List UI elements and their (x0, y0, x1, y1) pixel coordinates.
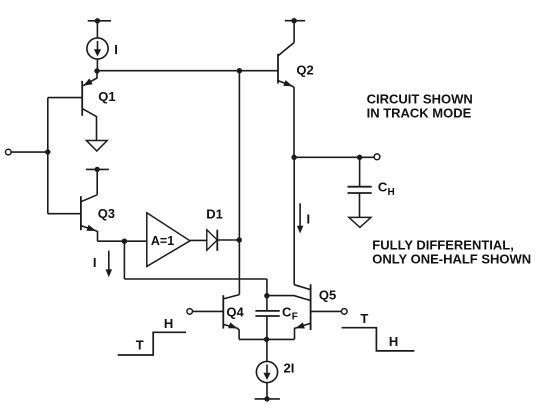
wire current source to node X (96, 59, 98, 71)
svg-text:Q5: Q5 (319, 287, 336, 302)
svg-text:H: H (388, 187, 395, 198)
svg-text:D1: D1 (206, 206, 223, 221)
svg-text:T: T (136, 337, 144, 352)
current arrow I (output branch) (297, 203, 304, 233)
buffer amplifier A=1 (147, 213, 190, 267)
wire output node to output terminal (294, 156, 374, 158)
svg-text:H: H (164, 316, 173, 331)
current arrow I (left branch) (106, 251, 113, 278)
wire Q3 emitter to buffer input (98, 240, 147, 242)
junction output node (291, 155, 296, 160)
wire spine top (node X row to D1 node) (238, 71, 240, 240)
junction on wire to Q2 (top of D1 spine) (237, 68, 242, 73)
waveform left (track-to-hold step) (118, 332, 186, 355)
svg-text:ONLY ONE-HALF SHOWN: ONLY ONE-HALF SHOWN (372, 252, 531, 267)
svg-text:CIRCUIT SHOWN: CIRCUIT SHOWN (367, 91, 473, 106)
junction feedthrough tap (122, 239, 127, 244)
junction input node (45, 149, 50, 154)
capacitor CH (348, 187, 372, 218)
value label CH (378, 180, 395, 199)
wire feedthrough tap down (123, 241, 125, 279)
output terminal (374, 154, 380, 160)
wire terminal to Q4 base (193, 310, 224, 312)
transistor Q3 (81, 195, 98, 241)
transistor Q5 (294, 284, 310, 339)
power rail top-right (285, 20, 305, 22)
wire rail to Q3 collector (96, 169, 98, 194)
current source 2I (256, 361, 277, 382)
wire D1 cathode to spine (217, 239, 239, 241)
transistor Q1 (82, 71, 97, 141)
junction on bottom rail (264, 396, 269, 401)
junction on top-right rail (291, 18, 296, 23)
terminal right switch input (342, 309, 348, 315)
svg-text:Q3: Q3 (98, 206, 115, 221)
junction CH tap (357, 155, 362, 160)
wire tail node to 2I source (266, 339, 268, 361)
value label CF (282, 304, 298, 322)
svg-text:F: F (292, 311, 298, 322)
wire input bus to Q3 base (48, 213, 81, 215)
junction node X (94, 68, 99, 73)
svg-text:Q4: Q4 (226, 304, 244, 319)
power rail above Q3 (86, 168, 109, 170)
junction on top-left rail (95, 18, 100, 23)
wire rail to current source I (96, 21, 98, 38)
capacitor CF (255, 297, 279, 339)
wire feedthrough drop to CF node (266, 279, 268, 296)
annotation fully differential (372, 237, 531, 266)
junction D1 cathode node (237, 237, 242, 242)
wire spine bottom (D1 node to Q4 collector) (238, 240, 240, 295)
junction CF top node (264, 293, 269, 298)
wire CF node to Q5 base bar (267, 296, 311, 301)
wire output node to Q5 collector (293, 157, 295, 284)
svg-text:I: I (114, 42, 118, 57)
annotation track mode (367, 91, 473, 120)
diode D1 (207, 230, 218, 251)
terminal left switch input (187, 309, 193, 315)
current source I (87, 38, 108, 59)
svg-text:I: I (307, 211, 311, 226)
ground under Q1 (86, 141, 107, 152)
transistor Q2 (278, 43, 294, 158)
power rail bottom (255, 398, 280, 400)
power rail top-left (88, 20, 111, 22)
junction on Q3 rail (95, 167, 100, 172)
wire feedthrough horizontal run (124, 278, 267, 280)
transistor Q4 (223, 295, 239, 340)
svg-text:I: I (93, 255, 97, 270)
wire 2I source to bottom rail (266, 383, 268, 399)
svg-text:H: H (389, 334, 398, 349)
svg-text:Q2: Q2 (296, 63, 313, 78)
svg-text:C: C (282, 304, 292, 319)
wire buffer output to D1 anode (190, 239, 207, 241)
wire CH tap down (359, 157, 361, 186)
svg-text:Q1: Q1 (98, 89, 115, 104)
svg-text:T: T (360, 311, 368, 326)
input terminal (6, 149, 12, 155)
wire input bus to Q1 base (48, 97, 82, 99)
wire Q5 base to terminal (311, 310, 342, 312)
svg-text:2I: 2I (284, 361, 295, 376)
svg-text:A=1: A=1 (151, 234, 174, 248)
svg-text:FULLY DIFFERENTIAL,: FULLY DIFFERENTIAL, (372, 237, 514, 252)
junction tail node (264, 337, 269, 342)
svg-text:IN TRACK MODE: IN TRACK MODE (367, 106, 472, 121)
wire rail to Q2 collector (293, 21, 295, 43)
svg-text:C: C (378, 180, 388, 195)
wire node X to Q2 base (97, 70, 278, 72)
ground under CH (349, 217, 371, 227)
wire input bus vertical (47, 98, 49, 214)
waveform right (hold-to-track step) (342, 328, 415, 351)
wire tail rail (239, 338, 294, 340)
wire input terminal to input bus (11, 151, 48, 153)
